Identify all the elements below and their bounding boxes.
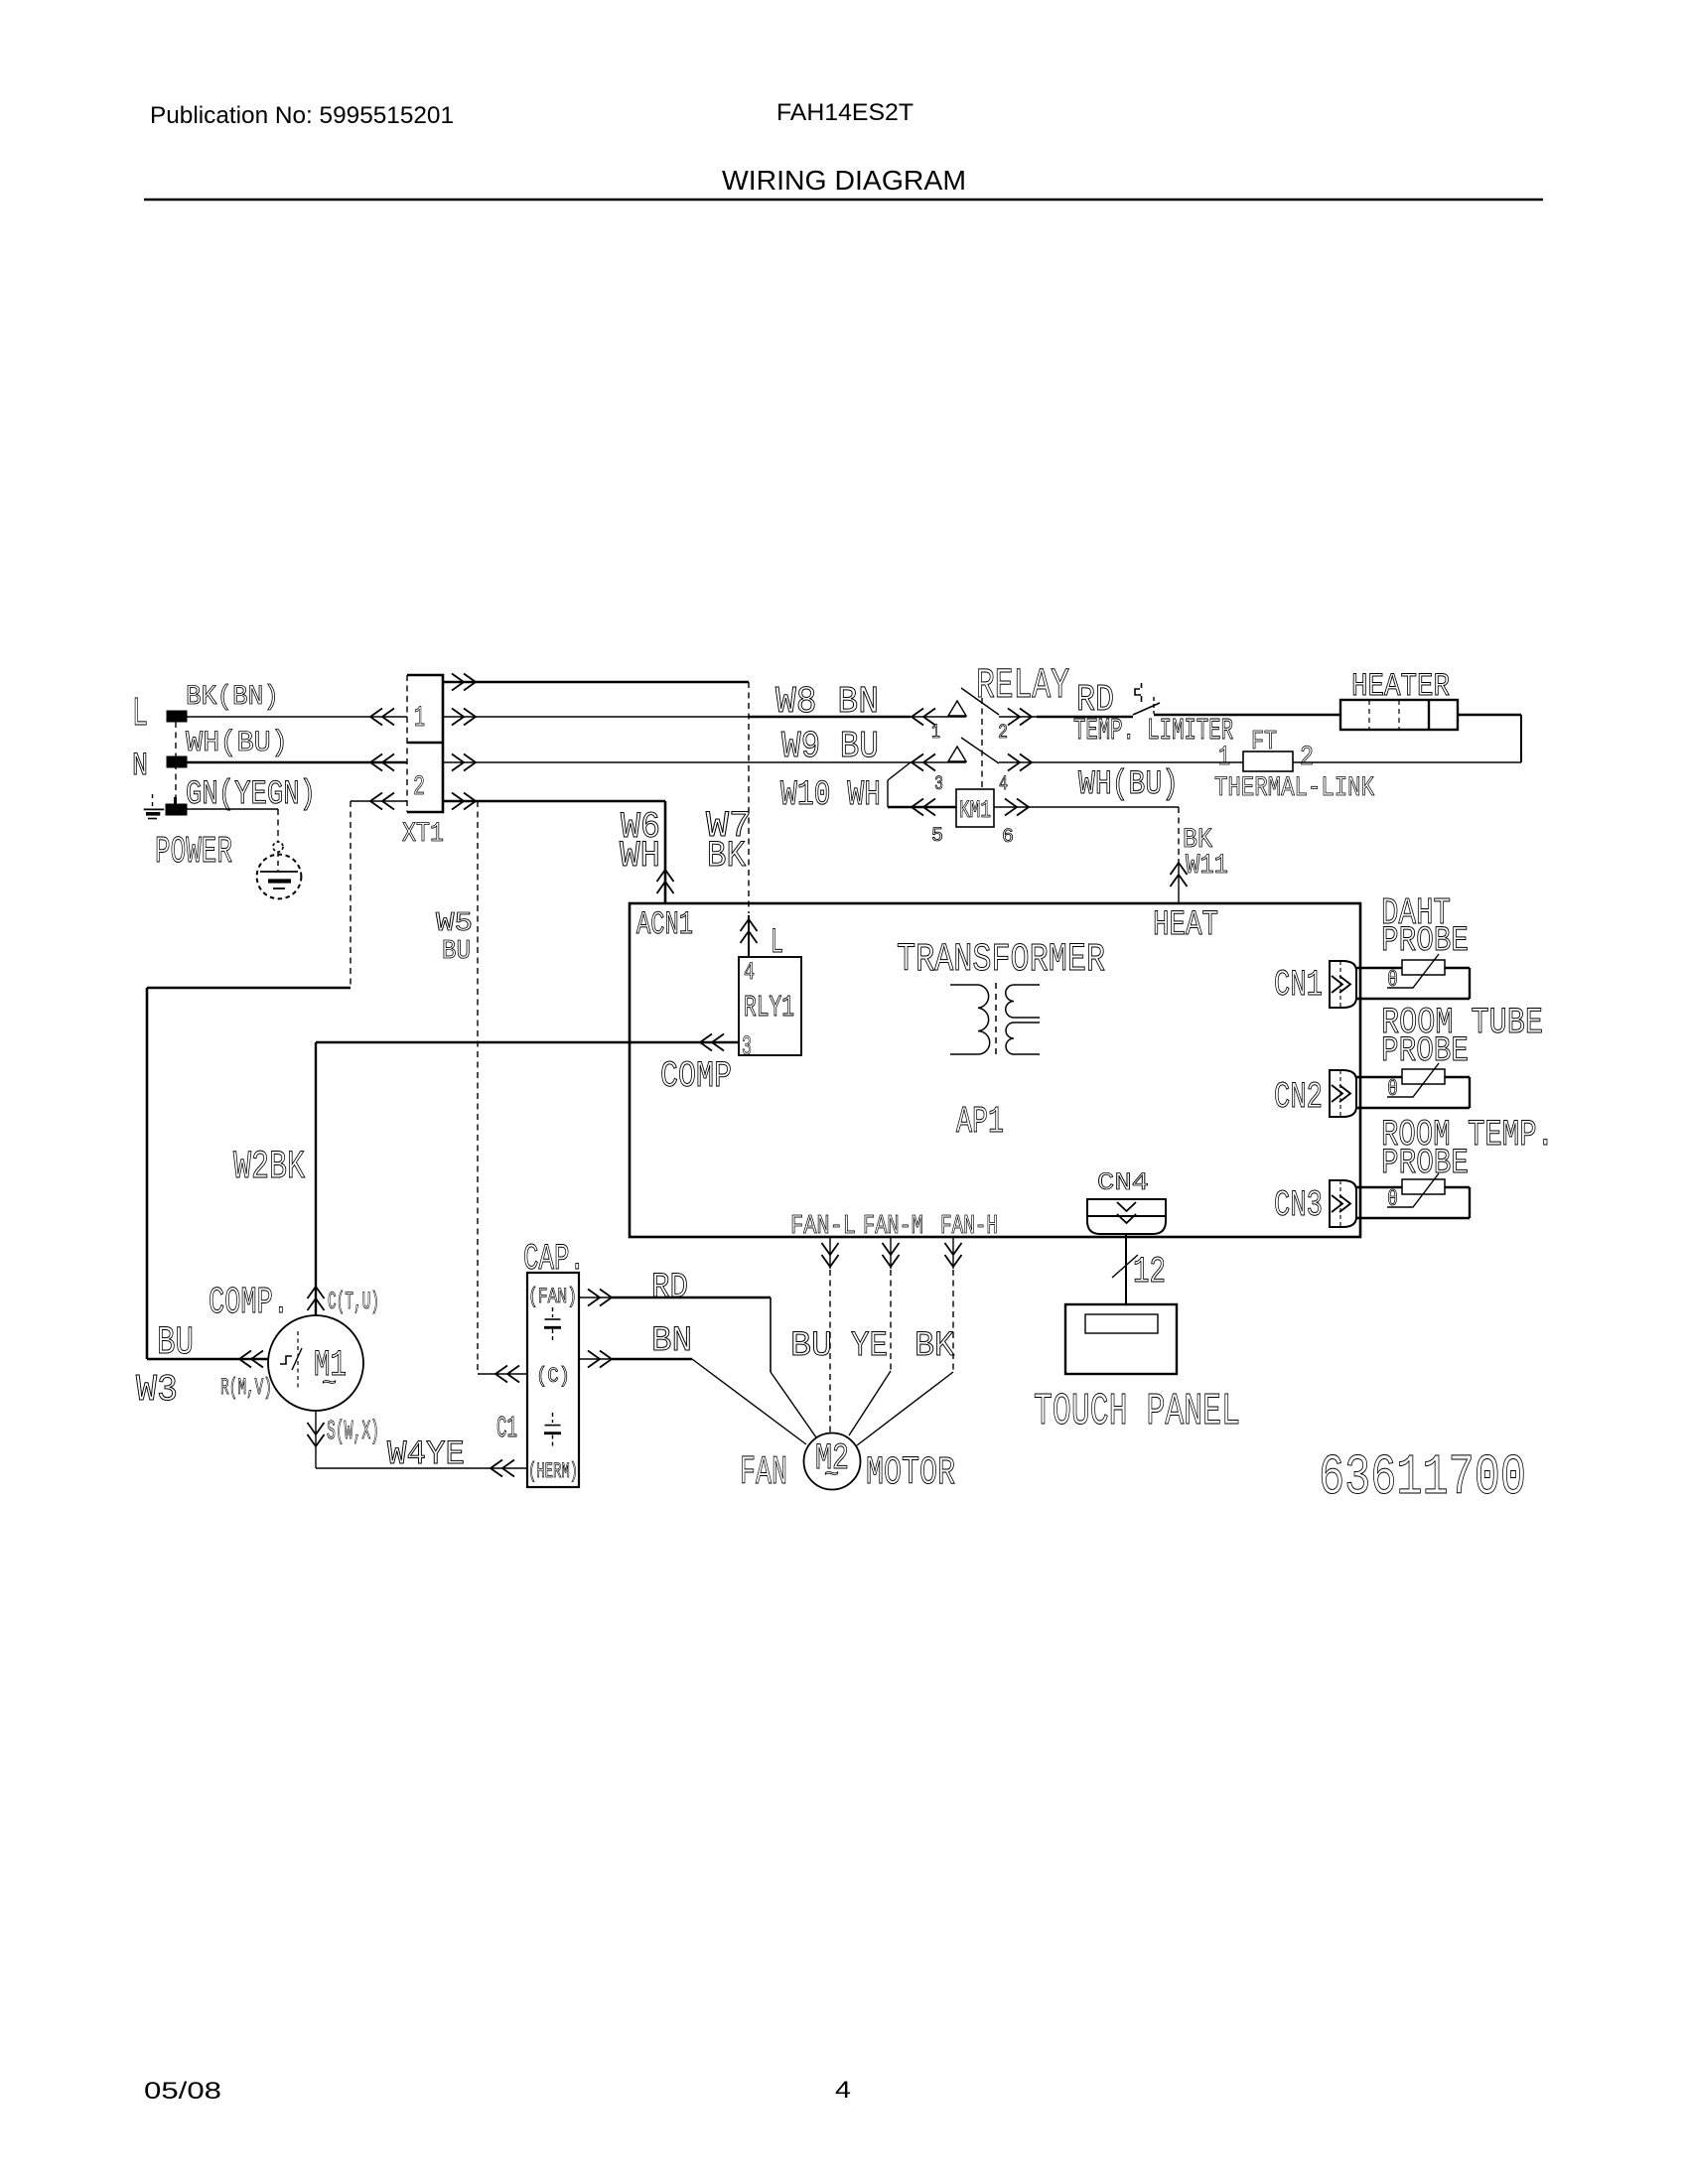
wire BK W11 horizontal xyxy=(994,806,1179,808)
wire BU dashed xyxy=(829,1270,831,1433)
svg-text:FAN-M: FAN-M xyxy=(863,1211,923,1241)
svg-text:2: 2 xyxy=(1300,743,1314,773)
wire row D dashed drop xyxy=(350,801,352,988)
wire RD horizontal thick xyxy=(612,1297,771,1298)
connector CN2 xyxy=(1330,1070,1356,1117)
svg-text:C(T,U): C(T,U) xyxy=(328,1288,379,1316)
wire W9 row C xyxy=(443,761,966,763)
svg-text:W4YE: W4YE xyxy=(387,1436,465,1474)
thermistor body CN1 xyxy=(1402,960,1445,975)
svg-text:C1: C1 xyxy=(496,1412,517,1446)
heater divider 2 dashed xyxy=(1398,700,1400,730)
terminal block XT1 box xyxy=(407,675,443,812)
transformer primary winding xyxy=(950,985,990,1054)
temp limiter blade xyxy=(1133,703,1160,715)
terminal N xyxy=(167,756,187,767)
probe wire bottom CN1 xyxy=(1356,998,1470,1000)
terminal L xyxy=(167,711,187,722)
relay blade 3-4 xyxy=(961,738,999,763)
wire heater return xyxy=(1293,761,1521,763)
svg-text:COMP.: COMP. xyxy=(209,1282,289,1324)
svg-text:05/08: 05/08 xyxy=(144,2078,221,2105)
touch panel display window xyxy=(1085,1314,1158,1333)
arrow out cap FAN xyxy=(588,1290,612,1306)
chassis ground bar2 xyxy=(146,812,160,816)
arrow FAN-L out xyxy=(822,1243,839,1267)
arrow out relay contact 4 xyxy=(1008,754,1032,771)
svg-text:XT1: XT1 xyxy=(402,819,444,850)
svg-text:BK: BK xyxy=(707,836,747,878)
svg-text:PROBE: PROBE xyxy=(1381,921,1469,961)
heater box xyxy=(1340,700,1458,730)
heater divider 3 xyxy=(1428,700,1430,730)
wire W3 to M1 xyxy=(147,1358,268,1361)
svg-text:θ: θ xyxy=(1387,1187,1398,1212)
wire RD vertical xyxy=(770,1297,772,1372)
capacitor C1 box xyxy=(527,1273,579,1487)
thermistor arrow CN1 xyxy=(1387,954,1439,988)
node vert W10 xyxy=(887,780,889,807)
wire GN to earth xyxy=(187,808,278,810)
thermistor body CN3 xyxy=(1402,1179,1445,1194)
wire W8 BN to relay xyxy=(749,716,911,718)
wire L to XT1 xyxy=(187,716,407,718)
header rule xyxy=(144,199,1543,202)
arrow W3 into M1 xyxy=(239,1351,263,1368)
wire BN diagonal to M2 xyxy=(692,1359,806,1444)
relay fixed contact 1 triangle xyxy=(948,701,966,716)
svg-text:63611700: 63611700 xyxy=(1319,1446,1526,1511)
arrow W7 into RLY1 L xyxy=(741,919,758,943)
arrow out cap C xyxy=(588,1351,612,1368)
wire heater down xyxy=(1520,715,1522,762)
wire BU vertical W3 xyxy=(146,988,149,1359)
svg-text:YE: YE xyxy=(851,1326,888,1366)
wire W6 vertical xyxy=(664,801,667,903)
svg-text:FAN-H: FAN-H xyxy=(940,1211,998,1241)
arrow W2BK into M1 xyxy=(308,1287,325,1310)
wire W7 stub to RLY1 xyxy=(748,915,750,957)
thermal link box xyxy=(1243,751,1293,771)
arrow into KM1 pin 5 xyxy=(912,799,935,816)
svg-text:L: L xyxy=(771,923,783,963)
svg-text:COMP: COMP xyxy=(660,1056,732,1098)
capacitor element fan xyxy=(552,1307,554,1317)
arrow FAN-H out xyxy=(945,1243,962,1267)
arrow FAN-M out xyxy=(883,1243,900,1267)
FAN-H shaft xyxy=(952,1237,954,1269)
svg-text:1: 1 xyxy=(931,722,940,745)
protective earth circle xyxy=(257,855,302,899)
svg-text:θ: θ xyxy=(1387,1077,1398,1102)
wire BK diagonal xyxy=(857,1372,953,1445)
svg-text:FAH14ES2T: FAH14ES2T xyxy=(776,99,914,126)
relay RLY1 box xyxy=(739,957,801,1055)
capacitor element herm xyxy=(552,1413,554,1423)
transformer secondary winding lower xyxy=(1006,1023,1040,1054)
svg-text:RELAY: RELAY xyxy=(976,662,1069,710)
earth bar1 xyxy=(260,871,298,873)
svg-text:S(W,X): S(W,X) xyxy=(327,1417,379,1446)
earth inner stub xyxy=(277,852,279,871)
wire RD diagonal to M2 xyxy=(771,1372,816,1437)
node diag W10 xyxy=(888,762,911,780)
svg-text:BU: BU xyxy=(790,1326,832,1366)
arrow into XT1 pin2 xyxy=(370,793,394,810)
terminal GND xyxy=(166,804,187,815)
arrow COMP into RLY1 pin3 xyxy=(700,1034,724,1051)
arrow into relay contact 3 xyxy=(912,754,935,771)
svg-text:W2BK: W2BK xyxy=(233,1145,305,1189)
wire W5 dashed drop xyxy=(477,801,479,1374)
svg-text:N: N xyxy=(132,748,148,784)
wire RD relay to limiter xyxy=(1037,716,1133,718)
wire N to XT1 xyxy=(187,761,407,764)
svg-text:PROBE: PROBE xyxy=(1381,1144,1469,1183)
fan motor M2 circle xyxy=(804,1433,861,1490)
FAN-M shaft xyxy=(890,1237,892,1269)
arrow M1 S terminal xyxy=(308,1423,325,1446)
svg-text:BU: BU xyxy=(442,936,471,966)
svg-text:4: 4 xyxy=(744,958,755,987)
probe wire top CN3 xyxy=(1356,1186,1470,1188)
svg-text:3: 3 xyxy=(742,1032,752,1063)
connector CN3 xyxy=(1330,1180,1356,1227)
wire BK dashed xyxy=(952,1270,954,1372)
wire M1 bottom xyxy=(315,1411,317,1468)
earth drop dashed xyxy=(277,809,279,842)
wire BN horizontal thick xyxy=(612,1358,692,1360)
wire YE diagonal xyxy=(849,1371,891,1435)
wire RD horizontal xyxy=(579,1297,771,1298)
wire W10 WH to KM1 xyxy=(888,806,956,808)
svg-text:CN3: CN3 xyxy=(1274,1185,1323,1227)
wire BK W11 dashed drop xyxy=(1178,807,1180,857)
FAN-L shaft xyxy=(829,1237,831,1269)
svg-text:RD: RD xyxy=(651,1268,688,1307)
svg-text:(HERM): (HERM) xyxy=(528,1459,578,1484)
arrow out XT1 row C xyxy=(452,754,476,771)
svg-text:CAP.: CAP. xyxy=(523,1239,585,1281)
svg-text:WH(BU): WH(BU) xyxy=(1078,766,1179,804)
arrow W6 into ACN1 xyxy=(657,870,674,893)
wire CN4 to touch panel xyxy=(1125,1234,1127,1304)
svg-text:MOTOR: MOTOR xyxy=(866,1450,955,1495)
svg-text:WH(BU): WH(BU) xyxy=(186,727,288,759)
wire W6 horizontal xyxy=(443,800,665,803)
svg-text:4: 4 xyxy=(999,773,1008,796)
temp limiter 5 mark xyxy=(1135,683,1142,702)
svg-text:L: L xyxy=(132,692,148,738)
svg-text:BN: BN xyxy=(651,1321,692,1361)
arrow out XT1 row A xyxy=(452,674,476,691)
svg-text:W3: W3 xyxy=(136,1369,178,1412)
svg-text:BU: BU xyxy=(157,1320,194,1365)
connector CN4 xyxy=(1087,1199,1166,1234)
thermistor arrow CN2 xyxy=(1387,1063,1439,1097)
wire W2BK vertical xyxy=(315,1042,317,1315)
svg-text:FAN: FAN xyxy=(740,1450,787,1496)
svg-text:FAN-L: FAN-L xyxy=(790,1211,856,1241)
thermistor body CN2 xyxy=(1402,1069,1445,1084)
relay contact 1 shaft xyxy=(911,716,966,718)
svg-text:5: 5 xyxy=(931,825,943,848)
connector CN1 xyxy=(1330,961,1356,1008)
svg-text:(FAN): (FAN) xyxy=(528,1285,577,1309)
wire COMP xyxy=(316,1041,739,1043)
wire WH(BU) to thermal link xyxy=(1037,761,1243,763)
svg-text:WH: WH xyxy=(620,836,660,878)
wire BN horizontal xyxy=(579,1358,692,1360)
XT1 divider xyxy=(407,742,443,745)
arrow into XT1 pin1 bottom xyxy=(370,754,394,771)
terminal link dashed xyxy=(175,722,177,804)
svg-text:THERMAL-LINK: THERMAL-LINK xyxy=(1214,773,1374,804)
svg-text:RLY1: RLY1 xyxy=(744,991,794,1025)
arrow out KM1 pin 6 xyxy=(1005,799,1029,816)
svg-text:(C): (C) xyxy=(536,1364,570,1389)
arrow W5 into cap C xyxy=(495,1366,519,1383)
wire W5 to cap C xyxy=(478,1373,527,1375)
chassis ground stub xyxy=(152,794,154,809)
svg-text:WIRING DIAGRAM: WIRING DIAGRAM xyxy=(722,165,966,196)
wire W7 dashed drop xyxy=(748,682,750,913)
wire BU horizontal xyxy=(147,987,351,990)
thermistor arrow CN3 xyxy=(1387,1173,1439,1207)
svg-text:PROBE: PROBE xyxy=(1381,1031,1469,1071)
svg-text:1: 1 xyxy=(414,702,425,735)
svg-text:AP1: AP1 xyxy=(956,1101,1004,1144)
svg-text:6: 6 xyxy=(1002,826,1014,849)
control board AP1 box xyxy=(630,903,1360,1237)
arrow W11 into HEAT xyxy=(1171,863,1188,887)
svg-text:~: ~ xyxy=(824,1462,839,1489)
arrow out relay contact 2 xyxy=(1008,709,1032,726)
heater divider 1 dashed xyxy=(1368,700,1370,730)
svg-text:W11: W11 xyxy=(1186,851,1228,882)
probe wire bottom CN2 xyxy=(1356,1107,1470,1109)
touch panel box xyxy=(1065,1304,1177,1374)
svg-text:HEAT: HEAT xyxy=(1153,905,1218,945)
svg-text:W5: W5 xyxy=(436,908,473,938)
relay contact 4 shaft xyxy=(999,761,1037,763)
svg-text:ACN1: ACN1 xyxy=(636,906,693,943)
svg-text:3: 3 xyxy=(934,773,943,796)
earth small circle xyxy=(273,842,283,852)
earth bar2 xyxy=(268,879,291,883)
transformer core dashed xyxy=(995,983,997,1056)
probe wire right CN3 xyxy=(1469,1187,1471,1218)
svg-text:BK: BK xyxy=(914,1326,955,1366)
svg-text:θ: θ xyxy=(1387,968,1398,993)
svg-text:W10 WH: W10 WH xyxy=(780,775,881,815)
wire heater out xyxy=(1458,714,1521,716)
arrow out XT1 row B xyxy=(452,709,476,726)
probe wire top CN1 xyxy=(1356,967,1470,969)
probe wire right CN1 xyxy=(1469,968,1471,999)
svg-text:2: 2 xyxy=(413,772,425,803)
svg-text:W8 BN: W8 BN xyxy=(775,681,879,724)
relay blade 1-2 xyxy=(961,688,999,715)
temp limiter contact dash xyxy=(1153,697,1155,714)
svg-text:~: ~ xyxy=(322,1371,337,1398)
compressor M1 circle xyxy=(268,1315,363,1411)
earth bar3 xyxy=(273,887,285,889)
relay actuator dashed xyxy=(981,698,983,789)
wire row B thin xyxy=(443,716,749,718)
svg-text:1: 1 xyxy=(1218,743,1230,773)
svg-text:CN4: CN4 xyxy=(1097,1168,1149,1197)
arrow into relay contact 1 xyxy=(912,709,935,726)
svg-text:TRANSFORMER: TRANSFORMER xyxy=(897,937,1105,982)
relay fixed contact 3 triangle xyxy=(948,747,966,761)
svg-text:4: 4 xyxy=(835,2077,851,2104)
svg-text:POWER: POWER xyxy=(155,831,232,874)
transformer secondary winding upper xyxy=(1006,985,1040,1018)
probe wire top CN2 xyxy=(1356,1076,1470,1078)
wire W4YE xyxy=(316,1467,527,1469)
chassis ground bar1 xyxy=(144,808,165,810)
relay coil KM1 box xyxy=(956,789,994,827)
svg-text:W9 BU: W9 BU xyxy=(781,726,879,768)
probe wire right CN2 xyxy=(1469,1077,1471,1108)
wire YE dashed xyxy=(890,1270,892,1371)
svg-text:R(M,V): R(M,V) xyxy=(220,1375,272,1402)
relay contact 2 shaft xyxy=(999,716,1037,718)
arrow W4YE into HERM xyxy=(491,1460,514,1477)
svg-text:12: 12 xyxy=(1133,1252,1166,1294)
XT1 left edge dashed xyxy=(406,675,408,812)
svg-text:TEMP. LIMITER: TEMP. LIMITER xyxy=(1073,714,1233,749)
M1 internal overload protector xyxy=(280,1356,292,1364)
svg-text:CN1: CN1 xyxy=(1274,965,1323,1007)
svg-text:TOUCH PANEL: TOUCH PANEL xyxy=(1034,1386,1240,1437)
bus slash 12 xyxy=(1112,1255,1138,1278)
wire limiter to heater xyxy=(1154,714,1340,716)
svg-text:BK(BN): BK(BN) xyxy=(186,682,279,713)
chassis ground bar3 xyxy=(148,818,157,820)
wire W8 row A xyxy=(443,681,749,684)
svg-text:KM1: KM1 xyxy=(959,796,991,825)
svg-text:Publication No: 5995515201: Publication No: 5995515201 xyxy=(150,102,454,129)
probe wire bottom CN3 xyxy=(1356,1217,1470,1219)
svg-text:2: 2 xyxy=(998,722,1008,745)
wire XT1 row D left xyxy=(351,800,407,802)
arrow out XT1 row D xyxy=(452,793,476,810)
arrow into XT1 pin1 top xyxy=(370,709,394,726)
wire W11 stub into AP1 xyxy=(1178,859,1180,903)
svg-text:CN2: CN2 xyxy=(1274,1077,1323,1119)
